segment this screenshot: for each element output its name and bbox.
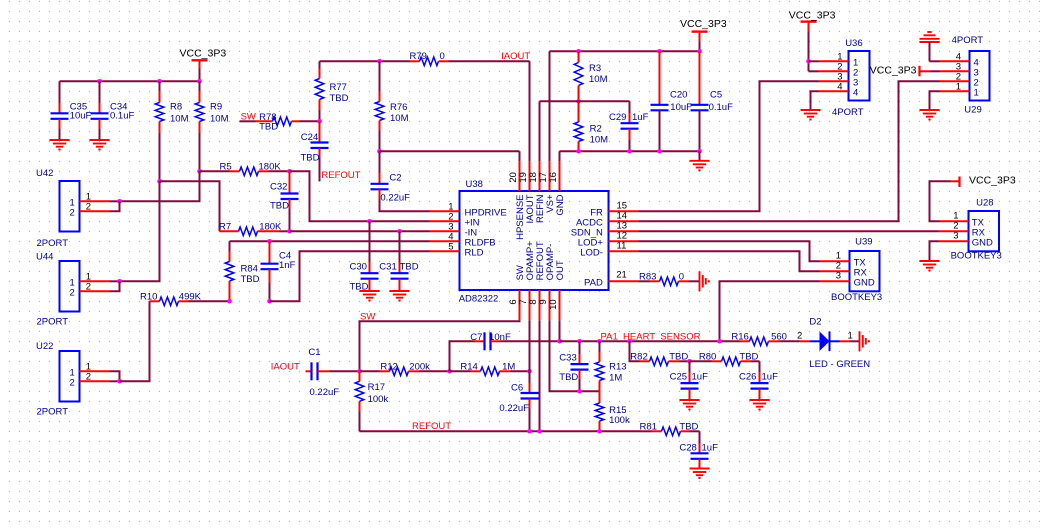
- wire VS+ column: [549, 51, 551, 161]
- svg-text:OUT: OUT: [555, 260, 566, 280]
- pin 1 HPDRIVE: [430, 201, 507, 218]
- label U44: [36, 252, 53, 263]
- label U38: [466, 179, 483, 190]
- capacitor C24: [311, 121, 329, 181]
- wire U39 GND down: [720, 281, 820, 341]
- svg-text:10M: 10M: [590, 135, 609, 146]
- resistor R14: [450, 367, 530, 376]
- ground below C35: [50, 140, 70, 150]
- resistor R3: [574, 51, 583, 101]
- svg-text:180K: 180K: [259, 161, 282, 172]
- junction R5 C32: [287, 169, 292, 174]
- label VCC_3P3 U28: [969, 175, 1016, 187]
- wire R7 to -IN: [290, 230, 430, 232]
- svg-text:U39: U39: [855, 236, 872, 247]
- label BOOTKEY3 U39: [831, 292, 882, 303]
- wire SW net: [360, 320, 520, 371]
- resistor R13: [595, 341, 604, 403]
- svg-text:R7: R7: [219, 221, 231, 232]
- svg-text:C26: C26: [739, 371, 756, 382]
- pin 13 SDN_N: [571, 221, 639, 239]
- label D2: [809, 317, 821, 328]
- pin 1 U28 TX: [940, 211, 985, 229]
- svg-text:5: 5: [448, 241, 453, 252]
- label SW bottom: [360, 312, 375, 323]
- label R83 0: [639, 271, 684, 282]
- svg-text:VCC_3P3: VCC_3P3: [680, 18, 727, 30]
- svg-text:R3: R3: [589, 63, 601, 74]
- label C28 1uF: [679, 442, 718, 453]
- junction bus2 C5: [697, 49, 702, 54]
- svg-text:100k: 100k: [609, 415, 630, 426]
- svg-text:4PORT: 4PORT: [832, 107, 864, 118]
- svg-text:R12: R12: [380, 361, 397, 372]
- resistor R10: [150, 297, 230, 306]
- svg-text:C30: C30: [350, 262, 367, 273]
- svg-text:10M: 10M: [589, 74, 608, 85]
- label R82 TBD: [630, 351, 688, 362]
- svg-text:R2: R2: [590, 124, 602, 135]
- svg-text:U42: U42: [36, 168, 53, 179]
- svg-text:21: 21: [616, 269, 627, 280]
- svg-text:C5: C5: [710, 89, 722, 100]
- label U22: [36, 341, 53, 352]
- junction bus R8: [157, 79, 162, 84]
- svg-text:10nF: 10nF: [489, 332, 511, 343]
- wire D2 to ground: [840, 340, 860, 342]
- svg-text:U36: U36: [845, 38, 862, 49]
- svg-text:2PORT: 2PORT: [37, 317, 69, 328]
- junction R84 node: [227, 299, 232, 304]
- svg-text:U28: U28: [976, 197, 993, 208]
- pin 21 PAD: [584, 269, 638, 288]
- svg-text:D2: D2: [809, 317, 821, 328]
- svg-text:2: 2: [86, 371, 91, 382]
- pin 1 U22: [70, 361, 120, 381]
- svg-text:1uF: 1uF: [762, 371, 779, 382]
- label 2PORT U22: [37, 407, 69, 418]
- label R12 200k: [380, 361, 430, 372]
- wire U28 vcc: [930, 181, 951, 221]
- pin 2 U39 RX: [820, 260, 868, 278]
- ground U28: [920, 261, 940, 271]
- label R84 TBD: [241, 263, 260, 285]
- ground GND rail: [690, 151, 710, 170]
- label diode pin 2: [797, 331, 802, 342]
- svg-text:R84: R84: [241, 263, 258, 274]
- svg-text:VCC_3P3: VCC_3P3: [870, 65, 917, 77]
- pin 6 SW: [508, 265, 526, 320]
- capacitor C26: [751, 361, 769, 400]
- power VCC_3P3 top-mid: [692, 32, 708, 52]
- pin 2 U28 RX: [939, 221, 986, 239]
- connector U29: [970, 51, 990, 101]
- resistor R84: [225, 241, 234, 301]
- svg-text:16: 16: [548, 172, 559, 183]
- label R78 TBD: [259, 112, 278, 133]
- pin 1 U39 TX: [820, 250, 867, 268]
- pin 1 U36: [809, 51, 859, 68]
- label PA1_HEART_SENSOR: [601, 331, 701, 342]
- svg-text:R81: R81: [640, 421, 657, 432]
- label C1 0.22uF: [308, 347, 339, 398]
- svg-text:GND: GND: [972, 237, 993, 248]
- junction C4 node: [267, 299, 272, 304]
- label C20 10uF: [670, 89, 692, 113]
- wire GND rail: [560, 151, 700, 161]
- svg-text:2PORT: 2PORT: [37, 407, 69, 418]
- pin 2 U22: [70, 371, 120, 388]
- pin 3 U28 GND: [930, 231, 994, 262]
- svg-text:REFOUT: REFOUT: [321, 170, 360, 181]
- label R14 1M: [460, 361, 515, 372]
- svg-text:R9: R9: [210, 102, 222, 113]
- resistor R78: [240, 117, 320, 126]
- wire U22 to R10: [120, 301, 150, 381]
- label REFOUT stub: [321, 170, 360, 181]
- svg-text:10uF: 10uF: [670, 102, 692, 113]
- junction PA1 U39gnd: [717, 339, 722, 344]
- resistor R77: [315, 61, 324, 121]
- pin 4 U36: [811, 81, 859, 110]
- label C4 1nF: [279, 250, 296, 270]
- svg-text:AD82322: AD82322: [459, 294, 499, 305]
- label C26 1uF: [739, 371, 778, 382]
- svg-text:TBD: TBD: [270, 201, 289, 212]
- label IAOUT bottom: [271, 361, 300, 372]
- pin 12 LOD+: [578, 231, 639, 249]
- pin 2 +IN: [430, 211, 480, 228]
- capacitor C31: [391, 231, 409, 291]
- pin 16 GND: [548, 161, 566, 215]
- svg-text:1nF: 1nF: [279, 260, 296, 271]
- svg-text:PAD: PAD: [584, 277, 603, 288]
- resistor R80: [690, 357, 760, 366]
- wire REFIN node: [540, 101, 630, 161]
- ground below C34: [90, 140, 110, 150]
- svg-text:C31: C31: [379, 262, 396, 273]
- junction rail C20: [657, 149, 662, 154]
- resistor R5: [200, 167, 290, 176]
- wire to pin19: [529, 61, 531, 161]
- junction REFOUT pin8: [537, 429, 542, 434]
- junction PA1 R82: [627, 339, 632, 344]
- junction R12 R14 C7: [447, 369, 452, 374]
- svg-text:180K: 180K: [259, 221, 282, 232]
- svg-text:TBD: TBD: [400, 262, 419, 273]
- svg-text:R16: R16: [731, 331, 748, 342]
- pin 18 REFIN: [528, 161, 546, 223]
- pin 19 IAOUT: [518, 161, 536, 223]
- ground below C25: [680, 400, 700, 410]
- svg-text:2: 2: [70, 378, 75, 389]
- capacitor C33: [571, 341, 589, 391]
- capacitor C6: [521, 371, 539, 431]
- pin 17 VS+: [538, 161, 556, 212]
- label C33 TBD: [559, 352, 578, 383]
- svg-text:IAOUT: IAOUT: [501, 51, 530, 62]
- svg-text:IAOUT: IAOUT: [271, 361, 300, 372]
- label U36: [845, 38, 862, 49]
- svg-text:10uF: 10uF: [70, 111, 92, 122]
- pin 2 U29: [940, 71, 979, 88]
- label U42: [36, 168, 53, 179]
- diode D2 LED: [800, 332, 840, 352]
- capacitor C20: [651, 51, 669, 151]
- wire R9 to U42 pin1: [120, 171, 200, 201]
- label C24 TBD: [301, 132, 320, 164]
- pin 5 RLD: [430, 241, 484, 258]
- label R8 10M: [170, 102, 189, 125]
- svg-text:TBD: TBD: [739, 351, 758, 362]
- resistor R81: [640, 427, 700, 436]
- ground right of R83: [700, 271, 709, 291]
- svg-text:10M: 10M: [390, 113, 409, 124]
- svg-text:R17: R17: [368, 382, 385, 393]
- svg-text:R10: R10: [140, 291, 157, 302]
- resistor R2: [574, 101, 583, 151]
- label LED - GREEN: [809, 359, 870, 370]
- junction U44 pin1: [117, 279, 122, 284]
- label R13 1M: [609, 361, 626, 383]
- pin 10 OUT: [548, 260, 566, 320]
- svg-text:VCC_3P3: VCC_3P3: [789, 9, 836, 21]
- ground U36 pin4: [801, 110, 821, 120]
- power VCC_3P3 U29 pin3: [920, 66, 940, 77]
- svg-text:1uF: 1uF: [702, 442, 719, 453]
- wire R8 to U44 pin1: [120, 181, 160, 281]
- capacitor C28: [691, 431, 709, 468]
- capacitor C30: [361, 221, 379, 291]
- svg-text:R77: R77: [330, 82, 347, 93]
- label C6 0.22uF: [499, 383, 529, 415]
- junction U22 pin2: [117, 379, 122, 384]
- capacitor C25: [681, 361, 699, 400]
- power VCC_3P3 top-left: [192, 60, 208, 81]
- svg-text:C2: C2: [389, 173, 401, 184]
- pin 15 FR: [590, 201, 638, 219]
- svg-text:LED - GREEN: LED - GREEN: [809, 359, 870, 370]
- junction R9 node R5: [197, 169, 202, 174]
- wire RLDFB: [230, 240, 430, 242]
- junction R8 node: [157, 179, 162, 184]
- pin 9 OPAMP-: [538, 244, 556, 321]
- svg-text:C6: C6: [511, 383, 523, 394]
- pin 11 LOD-: [580, 241, 638, 259]
- svg-text:C20: C20: [670, 89, 687, 100]
- svg-text:0.22uF: 0.22uF: [310, 387, 340, 398]
- label VCC_3P3 U29: [870, 65, 917, 77]
- label U39: [855, 236, 872, 247]
- label R77 TBD: [330, 82, 349, 104]
- capacitor C5: [691, 51, 709, 151]
- ic U38 body: [460, 191, 609, 290]
- power VCC_3P3 U28: [951, 177, 960, 188]
- connector U22: [60, 351, 80, 402]
- svg-text:R76: R76: [390, 102, 407, 113]
- pin 1 U42: [70, 191, 120, 208]
- svg-text:BOOTKEY3: BOOTKEY3: [951, 251, 1002, 262]
- junction C2 node: [377, 149, 382, 154]
- resistor R79: [410, 57, 530, 66]
- label U29: [964, 105, 981, 116]
- junction bus2 C20: [657, 49, 662, 54]
- label C34 0.1uF: [110, 102, 134, 122]
- pin 3 U29: [940, 61, 979, 78]
- connector U39: [850, 251, 880, 291]
- capacitor C7: [450, 332, 560, 371]
- svg-text:TBD: TBD: [241, 274, 260, 285]
- pin 3 U36: [819, 71, 859, 88]
- junction SW C1 R17: [357, 369, 362, 374]
- svg-text:2: 2: [797, 331, 802, 342]
- wire VCC_3P3 bus top-left: [60, 80, 200, 82]
- capacitor C32: [281, 171, 299, 231]
- ground right of D2: [860, 331, 869, 351]
- junction U36 vcc: [806, 59, 811, 64]
- label R3 10M: [589, 63, 608, 85]
- label R7 180K: [219, 221, 282, 232]
- junction R78 C24: [317, 119, 322, 124]
- resistor R17: [355, 371, 364, 431]
- svg-text:0.1uF: 0.1uF: [110, 111, 134, 122]
- ground U29 pin1: [920, 110, 940, 120]
- svg-text:R80: R80: [699, 351, 716, 362]
- svg-text:200k: 200k: [409, 361, 430, 372]
- wire R5 to +IN: [290, 171, 430, 221]
- svg-text:VCC_3P3: VCC_3P3: [180, 48, 227, 60]
- junction R7 C32: [287, 229, 292, 234]
- label 2PORT U42: [37, 238, 69, 249]
- junction R82 C25: [687, 359, 692, 364]
- capacitor C1: [306, 362, 360, 380]
- label 2PORT U44: [37, 317, 69, 328]
- svg-text:BOOTKEY3: BOOTKEY3: [831, 292, 882, 303]
- junction PA1 R13: [597, 339, 602, 344]
- resistor R76: [375, 61, 384, 151]
- wire LOD+ to U39: [639, 241, 820, 261]
- svg-text:TBD: TBD: [330, 93, 349, 104]
- resistor R82: [630, 341, 690, 365]
- label C5 0.1uF: [709, 89, 733, 113]
- pin 20 HPSENSE: [508, 161, 526, 240]
- label R76 10M: [390, 102, 409, 124]
- svg-text:R79: R79: [410, 51, 427, 62]
- junction R14 C6 pin7: [527, 369, 532, 374]
- wire pin8 col: [539, 320, 541, 431]
- label C7 10nF: [470, 332, 511, 343]
- label 4PORT U29: [952, 35, 984, 46]
- svg-text:U29: U29: [964, 105, 981, 116]
- svg-text:4: 4: [837, 81, 842, 92]
- svg-text:2: 2: [70, 288, 75, 299]
- junction REFOUT C6: [527, 429, 532, 434]
- pin 2 U42: [70, 201, 120, 218]
- svg-text:560: 560: [771, 331, 787, 342]
- resistor R8: [155, 81, 164, 181]
- svg-text:R8: R8: [170, 102, 182, 113]
- svg-text:U44: U44: [36, 252, 53, 263]
- junction R3 R2: [576, 99, 581, 104]
- svg-text:GND: GND: [854, 277, 875, 288]
- wire IAOUT top: [320, 60, 410, 62]
- pin 2 U44: [70, 281, 120, 298]
- junction -IN C31: [397, 229, 402, 234]
- resistor R12: [360, 367, 450, 376]
- label VCC_3P3 top-mid: [680, 18, 727, 30]
- svg-text:R5: R5: [220, 161, 232, 172]
- wire FR to U36: [639, 81, 819, 211]
- label IAOUT top: [501, 51, 530, 62]
- svg-text:1uF: 1uF: [632, 112, 649, 123]
- wire pin7 col: [529, 320, 531, 371]
- junction rail C29: [627, 149, 632, 154]
- label C2 0.22uF: [380, 173, 410, 204]
- ground below C30: [360, 291, 380, 301]
- svg-text:1M: 1M: [609, 373, 622, 384]
- svg-text:1: 1: [974, 87, 979, 98]
- pin 4 RLDFB: [430, 231, 496, 248]
- svg-text:3: 3: [953, 231, 958, 242]
- ground below C31: [390, 291, 410, 301]
- pin 3 U39 GND: [820, 270, 875, 288]
- svg-text:C1: C1: [308, 347, 320, 358]
- label R15 100k: [609, 405, 630, 426]
- svg-text:10: 10: [548, 299, 559, 310]
- svg-text:C28: C28: [679, 442, 696, 453]
- junction bus R9: [197, 79, 202, 84]
- junction C33 OPAMP-: [577, 389, 582, 394]
- ground below C28: [690, 469, 710, 479]
- wire RLD: [270, 251, 430, 301]
- junction bus2 R3: [576, 49, 581, 54]
- svg-text:R82: R82: [630, 351, 647, 362]
- svg-text:C25: C25: [670, 371, 687, 382]
- junction RLDFB C4: [267, 239, 272, 244]
- svg-text:1M: 1M: [502, 361, 515, 372]
- label R16 560: [731, 331, 787, 342]
- svg-text:499K: 499K: [179, 291, 202, 302]
- ground below C26: [750, 400, 770, 410]
- label C32 TBD: [270, 182, 289, 212]
- svg-text:4: 4: [853, 87, 858, 98]
- junction rail R2: [576, 149, 581, 154]
- label 4PORT U36: [832, 107, 864, 118]
- svg-text:3: 3: [836, 270, 841, 281]
- wire VCC bus2: [550, 50, 700, 52]
- svg-text:0: 0: [440, 51, 445, 62]
- svg-text:0.1uF: 0.1uF: [709, 102, 733, 113]
- junction U42 pin1: [117, 199, 122, 204]
- label U28: [976, 197, 993, 208]
- wire R8 node to R7: [160, 181, 220, 231]
- power VCC_3P3 U36: [801, 22, 817, 72]
- svg-text:C32: C32: [270, 182, 287, 193]
- connector U44: [60, 261, 80, 312]
- label C29 1uF: [609, 112, 649, 123]
- label R17 100k: [368, 382, 389, 405]
- junction R76 top: [377, 59, 382, 64]
- svg-text:SW: SW: [360, 312, 375, 323]
- capacitor C2: [371, 151, 430, 211]
- junction rail C5: [697, 149, 702, 154]
- svg-text:10M: 10M: [210, 114, 229, 125]
- label R9 10M: [210, 102, 229, 125]
- wire pin10 col OUT: [559, 320, 561, 341]
- svg-text:TBD: TBD: [559, 372, 578, 383]
- junction OUT PA1: [557, 339, 562, 344]
- resistor R7: [220, 227, 290, 236]
